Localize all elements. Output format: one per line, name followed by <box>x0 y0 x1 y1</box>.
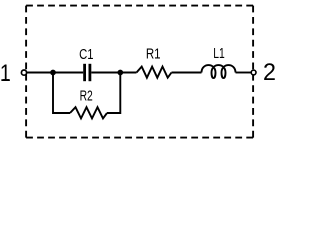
label R1 <box>146 45 161 62</box>
label R2 <box>80 87 93 105</box>
port label 1 <box>0 59 11 86</box>
dashed subcircuit boundary: right edge <box>252 6 254 138</box>
dashed subcircuit boundary: bottom edge <box>26 137 253 139</box>
wire: R2 right segment and up to node B <box>107 73 120 114</box>
wire: node A to C1 left plate <box>53 72 83 74</box>
inductor L1 coil <box>202 65 236 78</box>
label C1 <box>79 45 93 62</box>
wire: R1 to L1 <box>172 72 202 74</box>
svg-text:2: 2 <box>263 60 276 86</box>
svg-text:C1: C1 <box>79 45 93 62</box>
port label 1 foot serif <box>3 79 9 81</box>
capacitor C1 left plate <box>83 64 86 81</box>
wire: node B to R1 <box>120 72 136 74</box>
svg-text:L1: L1 <box>213 44 224 62</box>
dashed subcircuit boundary: top edge <box>26 5 253 7</box>
svg-text:R2: R2 <box>80 87 93 105</box>
svg-text:1: 1 <box>0 59 11 86</box>
terminal circle port 1 <box>21 70 26 75</box>
svg-text:R1: R1 <box>146 45 161 62</box>
node B junction dot <box>117 70 123 76</box>
resistor R2 zigzag <box>70 107 107 118</box>
capacitor C1 right plate <box>89 64 92 81</box>
wire: C1 right plate to node B <box>91 72 120 74</box>
dashed subcircuit boundary: left edge <box>25 6 27 138</box>
terminal circle port 2 <box>251 70 256 75</box>
label L1 <box>213 44 224 62</box>
node A junction dot <box>50 70 56 76</box>
wire: L1 to port 2 <box>236 72 252 74</box>
wire: node A down and left segment of R2 branch <box>53 73 70 114</box>
port label 2 <box>263 60 276 86</box>
wire: port1 to node A <box>27 72 53 74</box>
resistor R1 zigzag <box>137 67 172 78</box>
